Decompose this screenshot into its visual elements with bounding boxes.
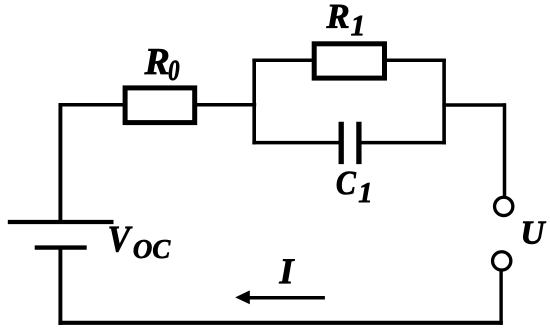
label R1 letter R — [326, 5, 348, 28]
battery VOC long plate — [8, 220, 114, 224]
label U — [523, 222, 546, 244]
wire below lower terminal — [499, 270, 502, 325]
terminal lower circle — [493, 252, 511, 270]
label R1 subscript 1 — [351, 16, 362, 35]
wire bottom branch right (C1 to right vertical) — [361, 141, 446, 145]
wire right middle horizontal (to output branch) — [442, 103, 505, 107]
label VOC subscript OC — [134, 240, 171, 258]
label VOC letter V — [110, 227, 133, 252]
wire right vertical down to upper terminal — [503, 103, 507, 197]
resistor R1 — [314, 44, 384, 78]
wire top branch left (to R1) — [252, 59, 315, 63]
resistor R0 — [125, 88, 195, 123]
wire left vertical (top corner down to battery positive plate) — [58, 103, 62, 222]
label R0 letter R — [144, 49, 168, 74]
wire parallel-block right vertical — [442, 59, 446, 145]
capacitor C1 right plate — [356, 122, 361, 164]
current arrow I head — [235, 290, 250, 304]
battery VOC short plate — [35, 245, 87, 249]
wire parallel-block left vertical — [252, 59, 256, 145]
wire top branch right (R1 to right vertical) — [383, 59, 446, 63]
wire R0 right to parallel block left — [195, 103, 256, 107]
wire bottom horizontal — [58, 321, 502, 325]
label I — [279, 259, 295, 283]
label C1 letter C — [337, 172, 356, 195]
wire bottom branch left (to C1 left plate) — [252, 141, 339, 145]
terminal upper circle — [495, 197, 513, 215]
label C1 subscript 1 — [359, 183, 370, 202]
current arrow I shaft — [248, 296, 325, 300]
wire top-left horizontal (node A to R0 left) — [59, 103, 124, 107]
capacitor C1 left plate — [339, 122, 344, 164]
wire left vertical below battery — [58, 248, 62, 325]
label R0 subscript 0 — [169, 61, 179, 81]
